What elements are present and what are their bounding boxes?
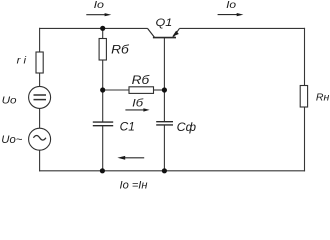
wire top-left (collector lead) xyxy=(39,27,147,29)
svg-text:Uo: Uo xyxy=(2,96,17,107)
transistor Q1 xyxy=(148,28,180,37)
wire below Cf xyxy=(163,125,165,171)
wire bottom xyxy=(39,170,305,172)
svg-text:Io =Iн: Io =Iн xyxy=(120,180,148,191)
source Uo (DC) xyxy=(29,86,51,108)
svg-text:r i: r i xyxy=(17,56,27,67)
wire left between r i and Uo source xyxy=(39,73,41,87)
junction mid-left node xyxy=(100,87,105,92)
wire left bottom xyxy=(39,150,41,171)
resistor Rb (vertical) xyxy=(99,39,106,61)
capacitor C1 xyxy=(93,122,113,126)
wire left top xyxy=(39,28,41,52)
wire mid horizontal right of Rb2 xyxy=(154,89,165,91)
wire top-right (emitter lead) xyxy=(180,27,306,29)
wire between Rb vertical and C1 xyxy=(102,60,104,122)
wire base vertical (Q1 base to mid node) xyxy=(163,38,165,122)
wire right side upper xyxy=(304,28,306,86)
current label Io (top left) xyxy=(86,0,111,16)
wire left between sources xyxy=(39,108,41,128)
resistor r i xyxy=(36,52,43,73)
junction bottom-left node xyxy=(100,168,105,173)
svg-text:Rб: Rб xyxy=(111,43,130,57)
junction mid-right node xyxy=(162,87,167,92)
current label Ib xyxy=(125,97,149,111)
current arrow (bottom, pointing left) xyxy=(117,156,144,160)
capacitor Cf xyxy=(156,122,173,125)
wire mid horizontal left of Rb2 xyxy=(103,89,129,91)
svg-text:Rн: Rн xyxy=(316,91,330,103)
junction bottom-right node xyxy=(162,168,167,173)
resistor Rn (load) xyxy=(300,86,307,108)
svg-text:Rб: Rб xyxy=(132,73,151,87)
wire right side lower xyxy=(304,107,306,171)
svg-text:C1: C1 xyxy=(120,122,135,134)
svg-text:Cф: Cф xyxy=(177,120,196,134)
wire base-divider branch top xyxy=(102,28,104,38)
junction top node xyxy=(100,26,105,31)
source Uo~ (AC) xyxy=(29,128,51,150)
wire below C1 xyxy=(102,126,104,171)
svg-text:Q1: Q1 xyxy=(156,17,173,29)
svg-text:Uo~: Uo~ xyxy=(1,134,22,146)
resistor Rb (horizontal) xyxy=(129,87,154,94)
svg-text:Io: Io xyxy=(226,0,237,11)
svg-text:Io: Io xyxy=(94,0,105,11)
svg-text:Iб: Iб xyxy=(132,97,144,109)
current label Io (top right) xyxy=(218,0,244,16)
